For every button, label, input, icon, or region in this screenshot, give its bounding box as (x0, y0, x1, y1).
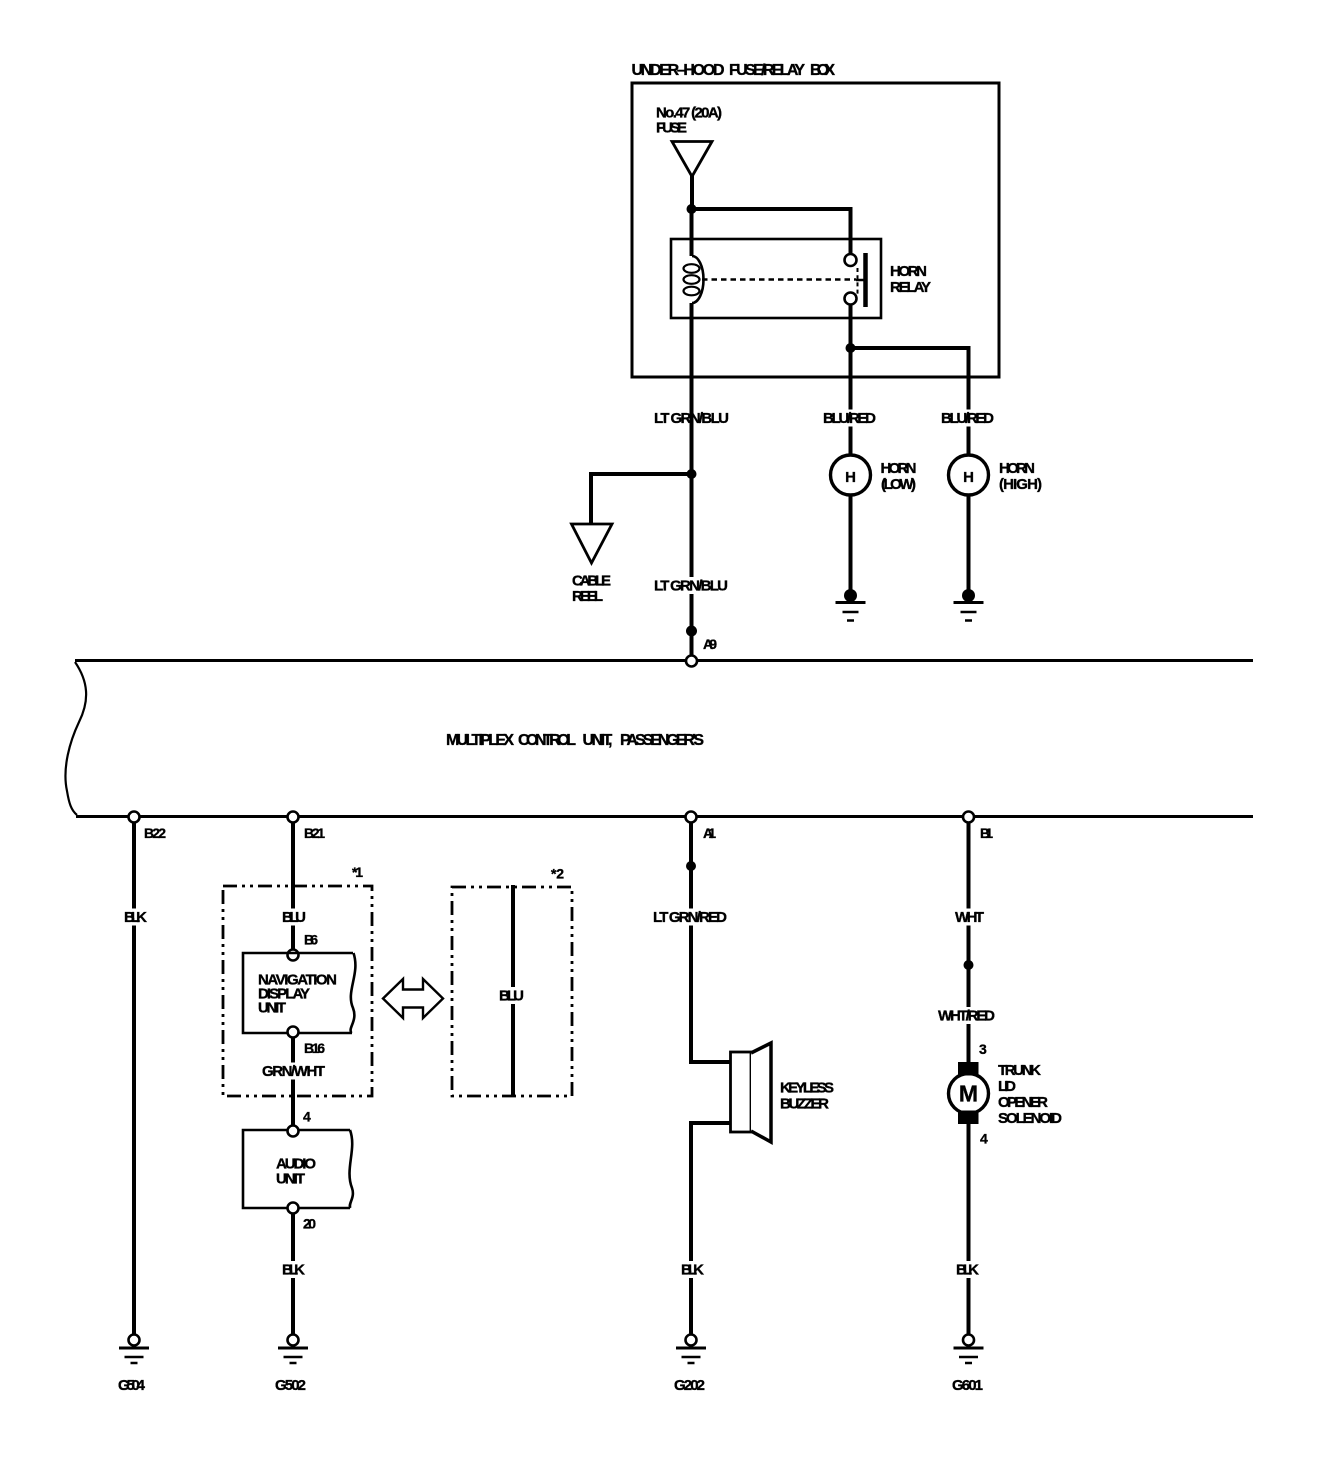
terminal audio pin 4 (288, 1126, 299, 1137)
wire BLU label (box *2) (497, 987, 526, 1004)
svg-text:4: 4 (303, 1109, 311, 1125)
svg-text:BLU/RED: BLU/RED (823, 410, 876, 427)
svg-text:WHT/RED: WHT/RED (938, 1008, 995, 1025)
wire B21 to B6 (291, 823, 295, 951)
wire BLU/RED label (horn low) (821, 410, 878, 427)
junction cable reel branch (687, 469, 697, 479)
wire fuse to junction (690, 176, 694, 209)
wire B22 to ground G504 (132, 823, 136, 1335)
wire BLU label (B21) (280, 909, 308, 926)
wire buzzer to ground G202 (689, 1123, 693, 1335)
svg-text:BLU/RED: BLU/RED (941, 410, 994, 427)
junction below fuse (687, 204, 697, 214)
svg-text:HORN: HORN (890, 263, 927, 280)
wire LT GRN/RED label (651, 909, 729, 926)
ground horn low (836, 589, 866, 621)
under-hood fuse/relay box (632, 83, 999, 377)
svg-text:HORN: HORN (999, 460, 1035, 477)
svg-text:UNIT,: UNIT, (583, 732, 613, 749)
wire LT GRN/BLU label 2 (652, 577, 730, 594)
ground horn high (954, 589, 984, 621)
svg-text:B16: B16 (304, 1040, 325, 1056)
svg-text:FUSE: FUSE (656, 120, 687, 137)
junction dot on B1 wire (964, 960, 974, 970)
svg-text:4: 4 (980, 1131, 988, 1147)
svg-text:WHT: WHT (955, 909, 984, 926)
wire horn low to ground (849, 495, 853, 592)
svg-text:B1: B1 (980, 825, 993, 841)
option box *1 (dash-dot) (223, 886, 372, 1096)
equivalence arrow between *1 and *2 (383, 979, 443, 1018)
wire branch to cable reel (591, 472, 694, 476)
svg-text:(LOW): (LOW) (881, 476, 916, 493)
ground G601 (954, 1335, 984, 1364)
ground G202 (676, 1335, 706, 1364)
svg-text:A9: A9 (703, 636, 717, 652)
svg-text:*1: *1 (352, 864, 363, 880)
wire relay to horn low (849, 348, 853, 455)
svg-text:M: M (959, 1081, 978, 1107)
svg-text:MULTIPLEX: MULTIPLEX (446, 732, 514, 749)
svg-text:BLK: BLK (956, 1262, 979, 1279)
fuse No.47 (20A) symbol (672, 142, 712, 177)
wire LT GRN/BLU label (652, 410, 731, 427)
ground G504 (119, 1335, 149, 1364)
solenoid terminal block bottom (958, 1111, 979, 1125)
svg-text:KEYLESS: KEYLESS (780, 1080, 834, 1097)
svg-text:A1: A1 (703, 825, 716, 841)
keyless buzzer horn flare (751, 1043, 771, 1142)
relay armature vertical dashes (857, 268, 859, 294)
svg-text:BOX: BOX (810, 62, 835, 79)
svg-text:3: 3 (979, 1041, 987, 1057)
horn relay box (671, 239, 881, 318)
wire BLU inside option box *2 (511, 885, 515, 1097)
solenoid terminal block top (958, 1062, 979, 1076)
multiplex control unit bottom line (76, 815, 1253, 818)
wire solenoid to ground G601 (967, 1124, 971, 1335)
svg-text:RELAY: RELAY (890, 279, 931, 296)
navigation display unit torn right edge (351, 953, 356, 1033)
svg-text:20: 20 (303, 1216, 316, 1232)
svg-text:BLK: BLK (282, 1262, 305, 1279)
junction below relay (846, 343, 856, 353)
option box *2 (dash-dot) (452, 887, 572, 1096)
wire horn high to ground (967, 495, 971, 592)
svg-text:OPENER: OPENER (998, 1094, 1048, 1111)
svg-text:CABLE: CABLE (572, 573, 611, 590)
ground G502 (278, 1335, 308, 1364)
wire junction to horn high branch (851, 346, 969, 350)
terminal B21 (288, 812, 299, 823)
svg-text:FUSE/RELAY: FUSE/RELAY (729, 62, 805, 79)
wire buzzer bottom stub (689, 1121, 732, 1125)
relay coil feed wire (690, 209, 694, 256)
horn (high) (949, 455, 989, 495)
wire BLK label (buzzer) (679, 1261, 706, 1278)
wire relay contact to junction (849, 305, 853, 349)
horn (low) (831, 455, 871, 495)
relay armature dashed link (702, 278, 856, 281)
wire BLK label (solenoid) (954, 1261, 981, 1278)
svg-text:(HIGH): (HIGH) (999, 476, 1042, 493)
svg-text:UNIT: UNIT (258, 1000, 286, 1017)
svg-text:CONTROL: CONTROL (518, 732, 576, 749)
svg-text:LT GRN/BLU: LT GRN/BLU (654, 578, 728, 595)
wire WHT/RED label (936, 1007, 997, 1024)
svg-text:HORN: HORN (881, 460, 917, 477)
multiplex control unit top line (75, 659, 1253, 662)
wire cable reel down (589, 472, 593, 524)
wire BLU/RED label (horn high) (939, 410, 996, 427)
svg-text:G601: G601 (952, 1377, 983, 1394)
wire horn high branch down (967, 346, 971, 455)
svg-text:GRN/WHT: GRN/WHT (262, 1063, 325, 1080)
wire audio pin 20 to ground G502 (291, 1214, 295, 1335)
svg-text:G504: G504 (118, 1377, 146, 1394)
relay coil arc (692, 256, 704, 303)
relay armature tick (856, 279, 864, 282)
svg-text:LT GRN/RED: LT GRN/RED (653, 909, 727, 926)
relay contact blade (863, 253, 868, 307)
wire buzzer top stub (689, 1060, 732, 1064)
relay coil loop 2 (684, 275, 700, 284)
wire A1 down to buzzer (689, 823, 693, 1063)
terminal A9 (686, 656, 697, 667)
terminal B22 (129, 812, 140, 823)
navigation display unit box (243, 953, 353, 1033)
terminal B1 (963, 812, 974, 823)
wire WHT label (953, 909, 986, 926)
wire junction to relay contact (horizontal) (690, 207, 852, 211)
svg-text:UNIT: UNIT (276, 1171, 305, 1188)
cable reel symbol (572, 524, 613, 563)
svg-text:*2: *2 (551, 866, 564, 882)
relay contact terminal top (845, 254, 857, 266)
keyless buzzer body (731, 1052, 752, 1132)
svg-text:H: H (845, 469, 856, 486)
svg-text:G202: G202 (674, 1377, 705, 1394)
terminal B16 (288, 1027, 299, 1038)
svg-text:BLK: BLK (681, 1262, 704, 1279)
svg-text:BUZZER: BUZZER (780, 1096, 829, 1113)
svg-text:SOLENOID: SOLENOID (998, 1110, 1062, 1127)
svg-text:TRUNK: TRUNK (998, 1062, 1041, 1079)
relay coil loop 1 (684, 264, 700, 273)
wire B1 down to solenoid (967, 823, 971, 1063)
wire down to relay contact (849, 207, 853, 254)
svg-text:BLK: BLK (124, 909, 147, 926)
audio unit box (243, 1130, 350, 1208)
wire GRN/WHT label (260, 1063, 327, 1080)
wire LT GRN/BLU vertical (fuse box to A9) (690, 303, 694, 656)
multiplex control unit torn left edge (65, 662, 86, 815)
wire B16 to audio unit pin 4 (291, 1038, 295, 1127)
svg-text:B22: B22 (144, 825, 166, 841)
terminal A1 (686, 812, 697, 823)
junction dot above A9 (686, 626, 697, 637)
svg-text:LID: LID (998, 1078, 1016, 1095)
audio unit torn right edge (350, 1130, 353, 1208)
svg-text:REEL: REEL (572, 588, 603, 605)
terminal audio pin 20 (288, 1203, 299, 1214)
svg-text:BLU: BLU (282, 909, 306, 926)
wire BLK label (audio) (280, 1261, 307, 1278)
svg-text:B21: B21 (304, 825, 325, 841)
trunk lid opener solenoid motor circle (949, 1074, 989, 1114)
terminal B6 (288, 950, 299, 961)
junction dot on A1 wire (686, 861, 696, 871)
svg-text:G502: G502 (275, 1377, 306, 1394)
wire BLK label (B22) (122, 909, 149, 926)
svg-text:PASSENGER’S: PASSENGER’S (620, 732, 704, 749)
svg-text:H: H (963, 469, 974, 486)
svg-text:B6: B6 (304, 932, 318, 948)
relay coil loop 3 (684, 287, 700, 296)
svg-text:BLU: BLU (499, 988, 524, 1005)
relay contact terminal bottom (845, 293, 857, 305)
svg-text:UNDER–HOOD: UNDER–HOOD (632, 62, 725, 79)
